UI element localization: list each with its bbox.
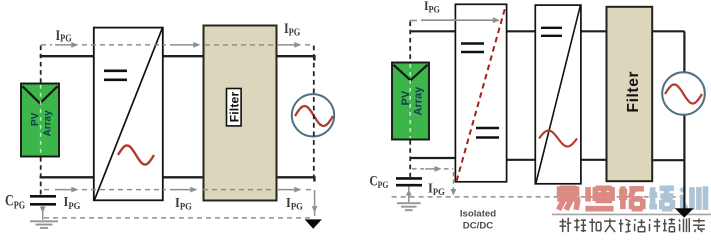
wire: right AC source vertical	[683, 31, 685, 208]
node: left IPG bottom dashed path with arrows	[44, 189, 314, 191]
svg-text:IPG: IPG	[175, 195, 192, 212]
svg-text:IPG: IPG	[56, 27, 73, 45]
wire: left bottom rail	[40, 176, 316, 181]
PV array (right)	[392, 63, 429, 140]
capacitor CPG (left)	[30, 196, 56, 204]
wire: left right-side vertical dashed	[313, 46, 315, 178]
svg-text:PV: PV	[400, 90, 412, 105]
DC/AC inverter box U1 (left)	[94, 28, 163, 201]
node: left lower ground dashed path	[44, 217, 311, 219]
node: left IPG top dashed path with arrows	[41, 44, 313, 46]
Isolated DC/DC converter box U2	[455, 4, 506, 182]
node: right IPG dashed path from cap	[412, 169, 453, 189]
watermark char 训	[682, 186, 706, 210]
wire: right top rail	[410, 30, 685, 32]
watermark char 易	[557, 186, 580, 210]
wire: right cap to ground	[408, 187, 410, 203]
wire: left cap to ground	[42, 206, 44, 220]
AC source V1 (left)	[292, 94, 334, 136]
PV array (left)	[21, 84, 59, 157]
watermark char 拓	[619, 186, 644, 209]
watermark underline	[552, 213, 711, 215]
svg-text:Isolated: Isolated	[460, 209, 496, 220]
ground (right)	[397, 203, 421, 210]
watermark char 迪	[585, 186, 613, 208]
svg-text:IPG: IPG	[64, 194, 81, 211]
node: left ground-return vertical with arrow	[314, 190, 316, 216]
node: right long bottom dashed ground path	[392, 196, 680, 198]
watermark char 培	[649, 186, 674, 209]
wire: right PV vertical dashed	[409, 22, 411, 178]
svg-text:CPG: CPG	[5, 193, 26, 211]
svg-text:IPG: IPG	[286, 195, 303, 212]
svg-text:Array: Array	[43, 110, 54, 137]
svg-text:Filter: Filter	[227, 92, 241, 123]
ground arrow PE (right)	[675, 208, 694, 217]
svg-text:IPG: IPG	[284, 20, 301, 39]
svg-text:PV: PV	[30, 112, 41, 126]
Filter box (left)	[204, 26, 277, 201]
Filter box (right)	[607, 7, 653, 181]
node: right IPG top arrow over box	[410, 19, 495, 21]
wire: left PV vertical dashed	[40, 46, 42, 196]
capacitor CPG (right)	[396, 178, 422, 185]
wire: left top rail	[40, 55, 316, 61]
DC/AC inverter box U3 (right)	[535, 5, 581, 184]
ground arrow PE (left)	[305, 219, 322, 228]
svg-text:IPG: IPG	[424, 0, 440, 15]
svg-text:DC/DC: DC/DC	[463, 221, 493, 232]
svg-text:Filter: Filter	[625, 72, 642, 113]
AC source V2 (right)	[662, 72, 705, 115]
watermark subtitle 射频和天线设计培训专家	[560, 218, 705, 232]
svg-text:Array: Array	[413, 86, 425, 116]
svg-text:CPG: CPG	[370, 172, 389, 190]
ground (left)	[30, 221, 58, 228]
wire: right bottom rail	[410, 158, 685, 160]
svg-text:IPG: IPG	[428, 180, 445, 197]
